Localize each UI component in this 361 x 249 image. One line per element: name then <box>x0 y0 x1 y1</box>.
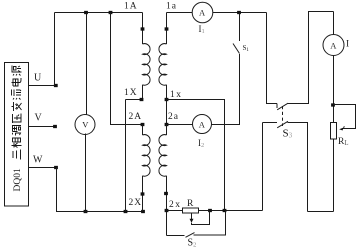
wire 2A feeder riser <box>111 13 143 125</box>
wire 2x to R <box>167 210 183 212</box>
wire T2 secondary top stem <box>166 125 168 136</box>
node R slider junction <box>208 209 212 212</box>
svg-text:R: R <box>187 199 194 209</box>
switch S2 blade <box>186 233 195 238</box>
node 2x junction <box>165 209 169 212</box>
wire V row <box>29 126 57 128</box>
switch S3 gang dashed link <box>282 106 284 126</box>
wire W row <box>29 167 58 169</box>
svg-text:1x: 1x <box>170 90 183 100</box>
terminal W square <box>54 166 58 169</box>
svg-text:A: A <box>199 8 206 18</box>
svg-text:W: W <box>33 155 43 166</box>
wire T1 secondary bottom stem <box>166 85 168 125</box>
wire T2 primary top stem <box>142 125 144 136</box>
wire 2a to I2 <box>167 124 193 126</box>
wire bottom bus <box>56 211 143 213</box>
glyph yuan (source) <box>12 66 22 76</box>
rheostat RL slider wire <box>333 105 356 129</box>
wire T1 primary bottom stem <box>142 85 144 100</box>
terminal U square <box>54 84 58 87</box>
winding T2 secondary <box>159 135 167 177</box>
wire S1 lower <box>212 54 240 125</box>
wire T2 secondary bottom stem <box>166 176 168 236</box>
svg-text:2X: 2X <box>129 198 143 208</box>
node RL slider tap <box>331 103 335 106</box>
node 1x terminal <box>165 98 169 101</box>
node S1 tap <box>237 11 241 14</box>
svg-text:1a: 1a <box>166 2 177 12</box>
wire S1 upper <box>239 13 241 42</box>
node 1X terminal <box>140 98 144 101</box>
glyph xiang (phase) <box>12 138 22 148</box>
node bottom bus 1X tap <box>124 210 128 213</box>
terminal V square <box>53 125 57 128</box>
node top bus voltmeter tap <box>84 11 88 14</box>
node 1A terminal <box>141 27 145 30</box>
wire 1x to load column <box>167 100 225 211</box>
svg-text:U: U <box>34 73 42 84</box>
power supply box DQ01 <box>5 63 29 207</box>
glyph tiao (regulate) <box>13 126 22 136</box>
wire U riser to top bus <box>54 13 56 86</box>
wire T2 primary bottom stem <box>142 176 144 212</box>
switch S1 blade <box>233 44 240 54</box>
wire U row <box>29 85 58 87</box>
switch S3 lower blade <box>277 121 288 128</box>
wire top bus left section <box>55 12 143 14</box>
ammeter I1 <box>192 2 213 23</box>
glyph liu (flow) <box>12 90 22 100</box>
wire load loop top right <box>333 12 335 36</box>
node voltmeter to bottom bus <box>84 210 88 213</box>
node 2a terminal <box>165 123 169 126</box>
wire voltmeter top stem <box>86 13 88 116</box>
winding T1 primary <box>143 44 151 86</box>
node load column junction <box>223 209 227 212</box>
glyph san (three) <box>13 150 21 160</box>
svg-text:1X: 1X <box>124 88 138 98</box>
winding T1 secondary <box>159 44 167 86</box>
node 2A terminal <box>141 123 145 126</box>
winding T2 primary <box>143 135 151 177</box>
wire I1 to S3 upper <box>213 12 267 14</box>
wire ammeter I to RL <box>333 55 335 123</box>
ammeter I2 <box>193 115 212 134</box>
glyph jiao (exchange) <box>12 102 22 111</box>
svg-text:2A: 2A <box>129 112 143 122</box>
wire S3 upper right <box>288 12 334 104</box>
node 2x terminal <box>164 192 168 195</box>
svg-text:1A: 1A <box>124 2 138 12</box>
power supply box vertical label DQ01 three-phase AC source <box>12 66 24 192</box>
wire S2 left <box>167 235 185 237</box>
wire voltmeter bottom stem <box>85 134 87 212</box>
node top bus 2A tap <box>109 11 113 14</box>
wire W riser to bottom bus <box>56 168 58 212</box>
svg-text:2x: 2x <box>169 200 182 210</box>
svg-text:2a: 2a <box>168 112 179 122</box>
svg-text:DQ01: DQ01 <box>13 168 23 191</box>
svg-text:V: V <box>35 113 43 124</box>
node 1a terminal <box>165 27 169 30</box>
svg-text:A: A <box>199 119 206 129</box>
wire T1 secondary top stem <box>166 13 168 45</box>
resistor RL <box>331 123 337 140</box>
glyph dian (electric) <box>12 78 22 86</box>
wire S3 upper riser from top bus <box>267 13 278 104</box>
ammeter I <box>323 35 344 56</box>
wire S3 lower left <box>263 122 278 124</box>
wire 1X link <box>126 99 142 101</box>
glyph ya (press) <box>13 114 22 124</box>
svg-text:I: I <box>346 40 349 50</box>
resistor R <box>183 208 199 213</box>
svg-text:V: V <box>82 119 89 129</box>
wire load bottom <box>308 211 334 213</box>
wire S2 right <box>194 211 226 236</box>
node bottom bus 2X end <box>141 210 145 213</box>
wire RL bottom <box>333 139 335 212</box>
voltmeter V <box>75 115 95 135</box>
svg-text:A: A <box>330 40 337 50</box>
rheostat R slider tap <box>192 211 210 225</box>
switch S3 upper blade <box>277 103 288 110</box>
node 2X terminal <box>141 192 145 195</box>
wire 1X drop to bottom bus <box>125 100 127 212</box>
wire R output row <box>199 210 263 212</box>
wire S3 lower right <box>288 123 308 212</box>
wire R row to S3 lower riser <box>262 123 264 211</box>
wire top bus secondary section <box>167 12 193 14</box>
wire T1 primary top stem <box>142 13 144 45</box>
